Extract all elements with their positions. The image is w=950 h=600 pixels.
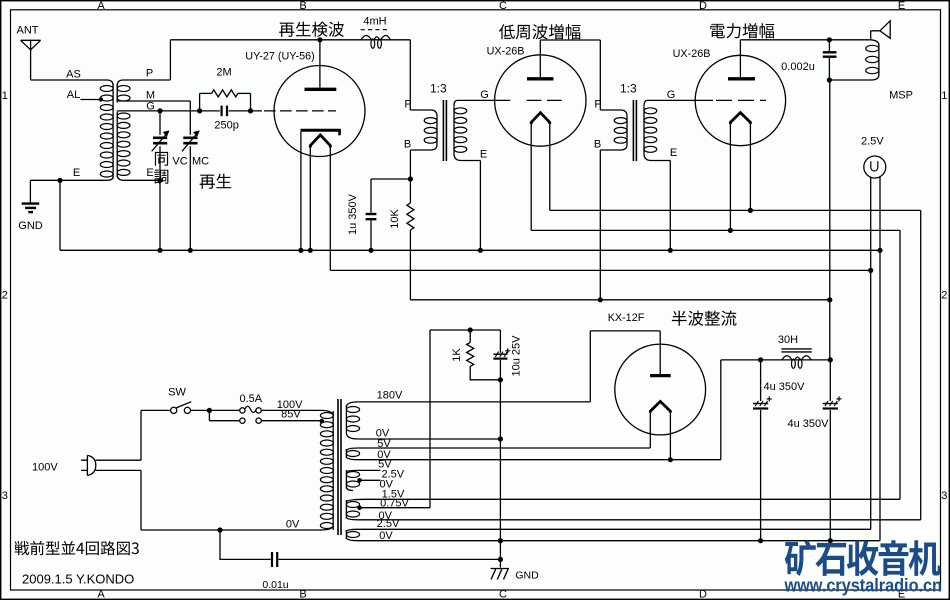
wire U1 cathode to ground bus: [300, 132, 302, 251]
pilot lamp jack 2.5V: [864, 156, 886, 178]
wire chassis ground lead: [499, 559, 501, 567]
node B plus T1: [408, 176, 413, 181]
node 4u cap2 top: [828, 357, 833, 362]
wire 85V to holder: [209, 420, 239, 422]
wire B+ bus: [410, 299, 830, 301]
node 0.75V tap: [357, 505, 362, 510]
wire plug bottom riser: [140, 470, 142, 530]
svg-text:A: A: [97, 589, 105, 600]
wire 10K top lead: [409, 179, 411, 203]
svg-text:3: 3: [941, 490, 947, 502]
svg-text:2M: 2M: [216, 67, 231, 79]
wire AL tap stub: [80, 99, 100, 101]
wire holder to 85V tap: [261, 420, 322, 422]
wire P riser: [169, 40, 171, 80]
svg-text:AL: AL: [67, 89, 80, 101]
svg-text:A: A: [97, 0, 105, 12]
svg-text:D: D: [699, 589, 707, 600]
node G: [157, 108, 162, 113]
node 10u bottom junction: [498, 377, 503, 382]
jack filament U: [871, 161, 878, 171]
wire U3 plate lead: [739, 40, 741, 77]
svg-text:E: E: [898, 0, 905, 12]
wire filament line A: [550, 209, 921, 211]
wire MC bottom lead: [189, 146, 191, 250]
svg-text:MC: MC: [192, 156, 209, 168]
svg-text:85V: 85V: [281, 409, 301, 421]
fuse holder lower terminal left: [240, 418, 245, 423]
switch SW lever: [176, 402, 191, 408]
speaker MSP horn: [871, 21, 891, 39]
svg-text:1u 350V: 1u 350V: [347, 193, 359, 235]
wire top rail to plate: [170, 39, 320, 41]
wire coil E right: [124, 179, 161, 181]
node U3 fil left on 1.5V line: [728, 228, 733, 233]
node HV return on 0V line: [498, 538, 503, 543]
svg-text:E: E: [670, 147, 677, 159]
svg-text:E: E: [146, 167, 153, 179]
svg-text:0.5A: 0.5A: [239, 393, 262, 405]
svg-text:3: 3: [2, 490, 8, 502]
wire primary 0V: [141, 529, 321, 531]
svg-text:B: B: [594, 139, 601, 151]
wire U1 filament right leg: [329, 148, 331, 271]
wire 10u bottom lead: [499, 360, 501, 380]
node 4u cap1 on 0V line: [758, 538, 763, 543]
svg-text:0.75V: 0.75V: [380, 497, 409, 509]
node 4u cap2 on 0V line: [828, 538, 833, 543]
node ground bus x310.3: [308, 248, 313, 253]
speaker voice coil: [871, 40, 879, 45]
wire U2 filament right leg: [549, 124, 551, 210]
label 再生: [200, 174, 231, 189]
node 85V branch: [207, 408, 212, 413]
chassis ground symbol: [491, 569, 509, 580]
wire U4 plate to 180V: [589, 331, 591, 402]
wire ground bus: [60, 249, 880, 251]
wire T1 B down: [409, 150, 411, 179]
30H core line 2: [781, 351, 811, 353]
wire 0.002u bottom lead: [828, 58, 830, 80]
wire through 30H: [761, 359, 831, 361]
label 再生検波: [279, 22, 344, 37]
svg-text:E: E: [480, 149, 487, 161]
wire bias to HV 0V: [499, 380, 501, 439]
label 同調 vertical: [155, 152, 168, 166]
svg-text:B: B: [404, 139, 411, 151]
wire 250p to grid: [229, 110, 262, 112]
wire 2M right leg: [250, 93, 252, 111]
wire 1u bottom lead: [370, 220, 372, 250]
svg-text:VC: VC: [172, 156, 187, 168]
power transformer T3 core: [337, 399, 339, 535]
T3 5V/2.5V/0V winding: [346, 470, 358, 472]
antenna ANT: [21, 40, 41, 50]
svg-text:D: D: [699, 0, 707, 12]
wire rect 0V / B+ takeoff: [358, 459, 721, 461]
node 0.002u bottom: [827, 77, 832, 82]
wire VC bottom lead: [159, 146, 161, 180]
svg-text:P: P: [146, 68, 153, 80]
wire switch to fuse: [191, 409, 240, 411]
svg-text:G: G: [480, 89, 489, 101]
node 0.002u top: [827, 37, 832, 42]
svg-text:10u 25V: 10u 25V: [511, 335, 523, 377]
wire U4 plate lead up: [659, 331, 661, 374]
wire filament line A riser: [920, 210, 922, 519]
wire 180V to rectifier plate: [358, 401, 590, 403]
svg-text:www.crystalradio.cn: www.crystalradio.cn: [784, 575, 942, 596]
node jack left on heater bus: [868, 268, 873, 273]
node ground bus x190.3: [188, 248, 193, 253]
wire coil E left: [60, 179, 107, 181]
wire 0.01u to chassis ground: [278, 558, 500, 560]
wire U1 filament left leg: [309, 148, 311, 251]
transformer T1 primary: [410, 110, 437, 116]
node plate junction UY-27: [317, 37, 322, 42]
wire T2 E to ground bus: [669, 161, 671, 251]
T3 1.5V/0.75V/0V winding: [346, 499, 364, 502]
wire U3 plate to speaker: [740, 39, 870, 41]
svg-text:GND: GND: [515, 570, 539, 582]
wire 0.002u top lead: [828, 40, 830, 51]
wire to GND: [30, 179, 60, 181]
wire HV 0V to chassis: [499, 439, 501, 559]
wire G to 250p: [160, 110, 220, 112]
wire G tap: [117, 110, 160, 112]
wire fuse to 100V tap: [261, 409, 320, 411]
node 0V stub tap: [357, 478, 362, 483]
capacitor 10u 25V: [493, 353, 507, 355]
svg-text:G: G: [667, 89, 676, 101]
wire 0V stub: [360, 479, 381, 481]
svg-text:UX-26B: UX-26B: [673, 48, 711, 60]
node 1K top: [468, 327, 473, 332]
svg-text:1: 1: [2, 90, 8, 102]
wire 2.5V heater: [358, 528, 870, 530]
transformer T2 secondary: [644, 100, 648, 106]
capacitor 0.01u: [271, 552, 273, 567]
svg-text:SW: SW: [168, 387, 186, 399]
node chassis ground junction: [498, 557, 503, 562]
wire U4 filament left leg: [649, 413, 651, 448]
wire rect output riser: [720, 360, 722, 460]
svg-text:1K: 1K: [451, 348, 463, 362]
U3 filament: [730, 113, 750, 124]
wire speaker horn lead: [870, 31, 872, 40]
U4 filament: [650, 401, 670, 412]
U1 cathode bar: [301, 129, 341, 132]
wire plug top: [96, 459, 141, 461]
label 半波整流: [672, 311, 737, 326]
wire 4u cap1 top lead: [760, 360, 762, 401]
wire 5V to rectifier fil: [358, 447, 650, 449]
svg-text:ANT: ANT: [17, 25, 39, 37]
resistor 2M: [212, 90, 238, 97]
T3 5V rectifier filament winding: [346, 448, 358, 451]
svg-text:2.5V: 2.5V: [377, 518, 400, 530]
U2 grid dashed: [527, 99, 562, 101]
svg-text:0.002u: 0.002u: [781, 61, 815, 73]
node ground bus x300.9: [298, 248, 303, 253]
wire 1K bottom: [470, 366, 500, 379]
svg-text:C: C: [499, 589, 507, 600]
wire T2 G to U3 grid: [648, 99, 714, 101]
fuse 0.5A element: [245, 406, 256, 412]
U3 grid dashed: [716, 99, 766, 101]
svg-text:2: 2: [2, 290, 8, 302]
node U4 fil right on 0V line: [668, 457, 673, 462]
label 低周波増幅: [499, 24, 580, 39]
node E right: [157, 178, 162, 183]
node 85V on winding: [320, 419, 325, 424]
svg-text:0V: 0V: [286, 519, 300, 531]
wire VC to ground bus: [159, 180, 161, 250]
node jack right on ground bus: [877, 248, 882, 253]
AC plug: [81, 455, 96, 475]
wire T2 B to B+ bus: [599, 150, 601, 300]
wire 85V branch drop: [208, 410, 210, 420]
resistor 1K: [467, 342, 474, 366]
U4 plate bar: [650, 374, 671, 377]
wire U4 plate left: [590, 330, 660, 332]
wire VC top lead: [159, 111, 161, 135]
wire 10K to B+ bus: [409, 230, 411, 300]
wire filament line B riser: [899, 230, 901, 499]
antenna coil secondary lower section (G-E): [117, 112, 130, 177]
fuse holder lower terminal right: [256, 418, 261, 423]
svg-text:C: C: [499, 0, 507, 12]
U1 filament: [310, 135, 330, 148]
svg-text:B: B: [299, 589, 306, 600]
wire down to T1 P: [409, 40, 411, 110]
wire coil P: [124, 79, 171, 81]
tube U4 KX-12F envelope: [615, 344, 706, 435]
U1 plate bar: [305, 88, 337, 91]
wire 2M left leg: [199, 93, 201, 111]
svg-text:UX-26B: UX-26B: [487, 46, 525, 58]
node ground bus x371: [368, 248, 373, 253]
node ground bus x160: [157, 248, 162, 253]
svg-text:UY-27 (UY-56): UY-27 (UY-56): [245, 51, 314, 63]
wire 1K top lead: [469, 330, 471, 342]
wire heater 0V / ground ref: [358, 540, 880, 542]
fuse 0.5A terminal right: [256, 408, 261, 413]
node T2 B on B+ bus: [598, 297, 603, 302]
wire plug bottom: [96, 469, 141, 471]
node 2M right: [248, 108, 253, 113]
label 電力増幅: [710, 23, 774, 38]
wire U2 plate to T2: [540, 39, 600, 41]
svg-text:30H: 30H: [778, 334, 798, 346]
transformer T2 core: [632, 100, 634, 161]
4mH core dashed line: [361, 29, 388, 31]
wire 4u cap2 top lead: [829, 360, 831, 401]
U2 filament: [531, 113, 550, 124]
U1 grid dashed: [264, 110, 336, 112]
wire speaker return to choke output: [829, 80, 831, 360]
svg-text:P: P: [594, 99, 601, 111]
node 2M left: [197, 108, 202, 113]
capacitor 4u 350V second: [823, 396, 842, 408]
wire to 0.01u: [220, 530, 271, 559]
node ground bus x480.4: [478, 248, 483, 253]
capacitor 0.002u: [823, 51, 837, 53]
wire U4 filament right leg: [669, 413, 671, 460]
svg-text:1: 1: [941, 90, 947, 102]
wire U3 filament right leg: [749, 124, 751, 210]
svg-text:B: B: [299, 0, 306, 12]
svg-text:2: 2: [941, 290, 947, 302]
wire U1 plate lead: [319, 40, 321, 88]
node AL tap: [99, 97, 103, 101]
watermark 矿石收音机: [785, 540, 941, 576]
tube U1 UY-27 envelope: [274, 66, 365, 157]
transformer T2 primary: [600, 110, 627, 116]
wire M tap: [117, 100, 190, 102]
svg-text:GND: GND: [18, 220, 43, 232]
wire jack right lead: [879, 177, 881, 251]
fuse 0.5A terminal left: [240, 408, 245, 413]
wire GND lead: [29, 180, 31, 203]
svg-text:4u 350V: 4u 350V: [788, 418, 830, 430]
wire filament line B: [531, 229, 900, 231]
wire MC top lead: [189, 101, 191, 135]
wire 4u cap1 bottom lead: [760, 410, 762, 541]
wire HV 0V: [358, 438, 500, 440]
svg-text:P: P: [404, 99, 411, 111]
svg-text:180V: 180V: [377, 389, 403, 401]
capacitor 4u 350V first: [753, 396, 772, 408]
transformer T1 core: [442, 100, 444, 161]
wire 0.75V tap: [360, 507, 431, 509]
variable capacitor VC tuning: [152, 130, 170, 151]
wire 10u top lead: [499, 330, 501, 353]
svg-text:MSP: MSP: [889, 90, 913, 102]
antenna coil secondary top section (P-M): [117, 80, 123, 86]
U2 plate bar: [527, 77, 554, 80]
transformer T1 secondary: [454, 100, 458, 106]
svg-text:10K: 10K: [389, 209, 401, 229]
node chassis on 0V line: [498, 538, 503, 543]
svg-text:KX-12F: KX-12F: [608, 312, 645, 324]
svg-text:1:3: 1:3: [620, 82, 637, 96]
wire down to T2 P: [599, 40, 601, 110]
antenna coil primary winding (AS-AL-E): [107, 80, 113, 86]
wire 2.5V stub: [358, 469, 380, 471]
label 戦前型並4回路図3: [15, 541, 139, 555]
svg-text:1:3: 1:3: [430, 82, 447, 96]
wire plug to switch: [141, 409, 171, 411]
svg-text:4u 350V: 4u 350V: [764, 381, 806, 393]
T3 primary winding: [321, 410, 334, 416]
wire bias top: [430, 329, 500, 331]
wire E to ground bus: [59, 180, 61, 250]
switch SW pole left: [171, 407, 177, 413]
node speaker line on B+ bus: [827, 297, 832, 302]
T3 2.5V/0V winding: [346, 529, 358, 531]
wire bias to 0.75V tap: [429, 330, 431, 508]
svg-text:250p: 250p: [214, 120, 238, 132]
switch SW pole right: [184, 407, 190, 413]
wire 1.5V filament: [364, 498, 900, 500]
node 4u cap1 top: [758, 357, 763, 362]
wire 4u cap2 bottom lead: [829, 410, 831, 541]
svg-text:2.5V: 2.5V: [861, 136, 884, 148]
wire 2.5V heater bus: [330, 269, 870, 271]
svg-text:0.01u: 0.01u: [262, 579, 288, 591]
wire plug top riser: [140, 410, 142, 460]
resistor 10K: [407, 203, 414, 230]
30H core line 1: [781, 348, 811, 350]
node ground bus x670.3: [668, 248, 673, 253]
svg-text:4mH: 4mH: [363, 16, 386, 28]
node 0.01u branch: [217, 527, 222, 532]
wire T1 E to ground bus: [479, 161, 481, 251]
node E left: [57, 178, 62, 183]
wire antenna lead down: [30, 50, 32, 80]
wire speaker bottom: [829, 79, 871, 81]
wire U2 filament left leg: [530, 124, 532, 230]
wire jack left to 2.5V tap: [870, 270, 872, 529]
tube U2 UX-26B envelope: [495, 55, 586, 146]
wire U2 plate lead: [539, 40, 541, 77]
variable capacitor MC regeneration: [182, 130, 200, 151]
tube U3 UX-26B envelope: [695, 55, 785, 145]
U3 plate bar: [728, 77, 755, 80]
wire through 4mH: [320, 39, 410, 41]
wire jack right to 0V tap: [879, 250, 881, 540]
capacitor 250p: [221, 106, 223, 117]
ground GND: [22, 202, 40, 204]
svg-text:E: E: [73, 167, 80, 179]
wire jack left lead: [870, 177, 872, 270]
svg-text:AS: AS: [66, 69, 81, 81]
wire 1u top lead: [370, 179, 372, 213]
wire rect output: [721, 359, 761, 361]
node HV 0V: [498, 436, 503, 441]
svg-text:2009.1.5 Y.KONDO: 2009.1.5 Y.KONDO: [22, 572, 134, 587]
T3 HV winding: [346, 402, 358, 407]
wire fil 0V: [358, 519, 920, 521]
wire to 1u cap: [371, 178, 410, 180]
capacitor 1u 350V: [366, 213, 377, 215]
wire T1 G to U2 grid: [458, 99, 511, 101]
svg-text:100V: 100V: [32, 461, 58, 473]
node U3 fil right on fil line: [748, 208, 753, 213]
wire antenna to coil AS: [31, 79, 107, 81]
wire U3 filament left leg: [729, 124, 731, 230]
